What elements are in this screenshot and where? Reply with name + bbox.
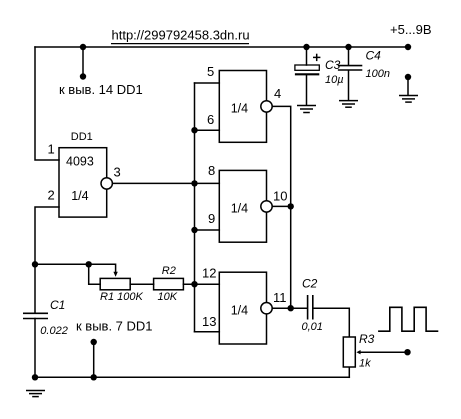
svg-text:13: 13 (202, 314, 216, 329)
inverter bubble DD1 pin3 (101, 178, 112, 189)
node dot ground rail corner (32, 374, 38, 380)
wire R1 to R2 (130, 283, 153, 285)
svg-text:1: 1 (48, 142, 55, 157)
svg-text:4: 4 (274, 86, 281, 101)
wire pin6 (195, 129, 220, 131)
wire pin10 output (272, 205, 291, 207)
svg-text:http://299792458.3dn.ru: http://299792458.3dn.ru (112, 28, 250, 43)
wire R3 wiper line (360, 351, 408, 353)
wire pin9 (195, 229, 220, 231)
node dot on rail (k vyv 14) (80, 44, 86, 50)
wire R3 bottom to rail (348, 367, 350, 377)
wire C2 to R3 top (313, 308, 349, 337)
capacitor C1 plates (23, 313, 48, 318)
svg-text:0.022: 0.022 (40, 325, 68, 337)
resistor R1 (potentiometer body) (100, 278, 130, 289)
inverter bubble pin10 (261, 201, 272, 212)
wire C1 bottom to ground rail (34, 319, 36, 378)
gate U4 (pins 12,13,11) box (219, 272, 266, 344)
gate U2 (pins 5,6,4) box (219, 71, 266, 143)
inverter bubble pin11 (261, 303, 272, 314)
node dot pin6 junction (191, 127, 197, 133)
wire pin12 (183, 283, 219, 285)
wire terminal stub k vyv 14 (82, 47, 84, 77)
node dot C4 tap (345, 44, 351, 50)
svg-text:к выв. 7 DD1: к выв. 7 DD1 (76, 319, 153, 334)
capacitor C3 plates (electrolytic) (295, 65, 319, 74)
resistor R3 (343, 337, 355, 367)
node dot pin10 output junction (288, 203, 294, 209)
svg-text:11: 11 (273, 290, 287, 305)
wire terminal stub k vyv 7 (93, 342, 95, 377)
node terminal k vyv 14 (80, 73, 86, 79)
capacitor C3 leads (306, 47, 308, 65)
ground (supply terminal) (399, 96, 418, 103)
square wave output symbol (378, 307, 438, 331)
wire bottom ground rail (35, 376, 349, 378)
node dot R1 left lead junction (86, 261, 92, 267)
wire pin13 (195, 331, 220, 333)
node dot pin11 output junction (288, 305, 294, 311)
ground (main, bottom left) (26, 391, 45, 397)
svg-text:C4: C4 (366, 49, 382, 63)
svg-text:1/4: 1/4 (231, 303, 248, 317)
svg-text:1/4: 1/4 (71, 189, 88, 203)
svg-text:9: 9 (208, 211, 215, 226)
svg-text:10K: 10K (158, 291, 178, 303)
svg-text:R3: R3 (359, 332, 375, 346)
node dot C3 tap (303, 44, 309, 50)
svg-text:8: 8 (208, 163, 215, 178)
R3 wiper arrowhead (356, 350, 360, 354)
svg-text:C2: C2 (302, 277, 318, 291)
svg-text:R2: R2 (162, 265, 176, 277)
svg-text:0,01: 0,01 (302, 321, 323, 333)
wire pin11 output to C2 (272, 307, 307, 309)
IC DD1 gate 1 box (59, 148, 107, 217)
resistor R2 (154, 278, 184, 289)
svg-text:R1 100K: R1 100K (100, 291, 143, 303)
C3 plus sign (313, 54, 320, 61)
svg-text:4093: 4093 (66, 154, 94, 168)
label url underline (111, 43, 249, 45)
node terminal output (404, 349, 410, 355)
svg-text:10: 10 (273, 189, 287, 204)
node terminal +5..9V (405, 44, 411, 50)
wire power rail (35, 46, 408, 48)
wire pin5 (195, 82, 220, 84)
wire left vertical top (rail to pin1) (35, 47, 59, 160)
wire R1 top node (35, 264, 116, 272)
ground (C4) (339, 101, 358, 108)
node dot pin9 junction (191, 227, 197, 233)
gate U3 (pins 8,9,10) box (219, 170, 266, 242)
node dot pin12 junction (191, 281, 197, 287)
ground (C3) (297, 106, 316, 113)
R1 wiper arrowhead (113, 272, 117, 277)
svg-text:100n: 100n (366, 68, 390, 80)
svg-text:DD1: DD1 (71, 131, 93, 143)
svg-text:1k: 1k (359, 358, 371, 370)
capacitor C4 plates (338, 66, 362, 70)
wire right ground stub (407, 79, 409, 95)
wire bus vertical x194.5 (194, 83, 196, 332)
node dot k vyv 7 rail junction (91, 374, 97, 380)
svg-text:1/4: 1/4 (231, 101, 248, 115)
svg-text:к выв. 14 DD1: к выв. 14 DD1 (59, 82, 143, 97)
svg-text:C3: C3 (325, 58, 341, 72)
wire R1 left lead (89, 264, 101, 284)
node dot pin3/pin8 junction (191, 180, 197, 186)
wire pin3 to pin8 (112, 182, 219, 184)
svg-text:1/4: 1/4 (231, 202, 248, 216)
svg-text:6: 6 (207, 112, 214, 127)
svg-text:12: 12 (202, 266, 216, 281)
svg-text:5: 5 (207, 64, 214, 79)
svg-text:+5...9В: +5...9В (390, 22, 432, 37)
svg-text:2: 2 (48, 187, 55, 202)
node terminal k vyv 7 (91, 339, 97, 345)
node dot R1 top node (32, 261, 38, 267)
capacitor C2 plates (308, 295, 313, 320)
capacitor C4 leads (348, 47, 350, 65)
wire pin2 to bottom node (35, 207, 59, 313)
node terminal supply ground (405, 74, 411, 80)
svg-text:C1: C1 (50, 298, 65, 312)
wire pin4 output (272, 106, 291, 308)
inverter bubble pin4 (261, 101, 272, 112)
svg-text:10µ: 10µ (325, 74, 344, 86)
svg-text:3: 3 (114, 165, 121, 180)
